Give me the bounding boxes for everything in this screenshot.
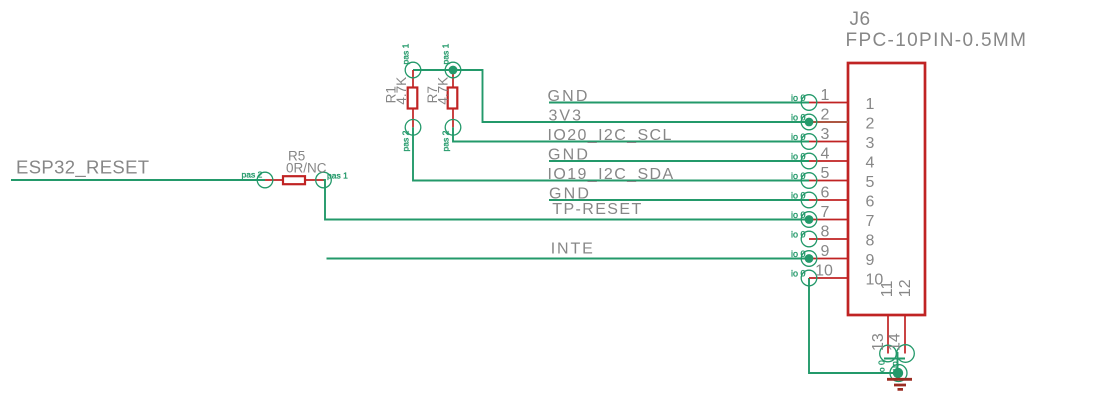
svg-text:INTE: INTE [551,240,595,257]
pin names inside (1-10) [866,96,884,289]
junction dot R7 top [449,66,458,75]
svg-text:pas 1: pas 1 [401,43,411,64]
svg-text:0R/NC: 0R/NC [286,161,327,176]
svg-text:6: 6 [821,185,830,202]
svg-text:pas 1: pas 1 [441,43,451,64]
svg-text:3: 3 [866,135,875,152]
junction dot pin7 [805,215,814,224]
svg-text:4: 4 [821,146,830,163]
svg-text:11: 11 [879,280,896,297]
wire vertical into ground junction [897,352,899,373]
pin circles R7 [445,62,461,135]
connector J6 pin 13 stub [887,315,889,354]
svg-text:9: 9 [821,243,830,260]
svg-text:3V3: 3V3 [549,107,583,124]
wire pins 13/14 tie to ground [884,358,905,360]
svg-text:io 0: io 0 [791,210,806,220]
supply pin circle at ground [890,365,907,382]
pin circles J6 pins 13/14 [880,345,915,363]
svg-text:GND: GND [549,185,591,202]
svg-text:4.7K: 4.7K [436,77,451,105]
svg-text:io 0: io 0 [791,113,806,123]
svg-text:IO20_I2C_SCL: IO20_I2C_SCL [548,127,673,144]
svg-text:io 0: io 0 [791,93,806,103]
svg-text:pas 2: pas 2 [242,170,263,180]
svg-text:9: 9 [866,252,875,269]
svg-text:8: 8 [866,232,875,249]
svg-text:io 0: io 0 [791,269,806,279]
connector J6 pin 14 stub [904,315,906,354]
svg-text:GND: GND [548,146,590,163]
wire GND to pin6 [549,199,809,201]
junction dot ground [893,368,903,378]
svg-text:5: 5 [866,174,875,191]
pin direction labels io 0 for pins 1-10 [791,93,806,279]
wire R5 to pin7 (TP-RESET net) [324,180,810,220]
svg-text:pas 1: pas 1 [327,170,348,180]
wire ESP32_RESET net [11,179,265,181]
svg-text:1: 1 [866,96,875,113]
svg-text:IO19_I2C_SDA: IO19_I2C_SDA [548,166,675,183]
resistor R1 stubs [412,70,414,127]
pin circles R5 [257,172,331,188]
resistor R1 body [408,88,418,109]
svg-text:1: 1 [821,87,830,104]
svg-text:3: 3 [821,126,830,143]
svg-text:4: 4 [866,154,875,171]
svg-text:13: 13 [870,333,887,351]
junction dot pin9 [805,254,814,263]
svg-text:io 0: io 0 [791,230,806,240]
svg-text:14: 14 [887,333,904,351]
svg-text:GND: GND [548,88,590,105]
pin circles R1 [405,62,421,135]
wire INTE to pin9 [327,258,810,260]
svg-text:TP-RESET: TP-RESET [552,201,642,218]
pin numbers outside (1-10) [815,87,833,280]
wire pin10 down to ground junction [809,278,898,373]
svg-text:7: 7 [866,213,875,230]
svg-text:io 0: io 0 [791,191,806,201]
svg-text:ESP32_RESET: ESP32_RESET [16,157,149,179]
svg-text:7: 7 [821,204,830,221]
svg-text:12: 12 [897,279,914,297]
svg-text:4.7K: 4.7K [394,77,409,105]
wire R1 top to R7 top to 3V3 corner to pin2 [413,70,809,122]
svg-text:FPC-10PIN-0.5MM: FPC-10PIN-0.5MM [846,30,1028,51]
svg-text:io 0: io 0 [791,249,806,259]
svg-text:8: 8 [821,224,830,241]
svg-text:sup: sup [890,361,900,375]
resistor R5 body [283,176,305,184]
svg-text:pas 2: pas 2 [401,130,411,151]
svg-text:2: 2 [821,107,830,124]
junction dot pin2 [805,118,814,127]
wire R7 bottom to pin3 (IO20_I2C_SCL) [453,127,809,141]
wire R1 bottom to pin5 (IO19_I2C_SDA) [413,127,809,180]
svg-text:io 0: io 0 [877,360,887,374]
connector J6 pin stubs 1-10 [809,103,848,279]
svg-text:5: 5 [821,165,830,182]
svg-text:io 0: io 0 [791,171,806,181]
ground symbol bars [887,379,912,389]
svg-text:io 0: io 0 [791,152,806,162]
wire GND to pin1 [549,102,809,104]
svg-text:6: 6 [866,193,875,210]
resistor R7 body [448,88,458,109]
svg-text:2: 2 [866,115,875,132]
svg-text:io 0: io 0 [791,132,806,142]
pin circles J6 pins 1-10 [801,95,817,286]
connector J6 box [848,63,925,315]
wire overlap on pin2 stub [809,121,848,123]
svg-text:10: 10 [815,263,833,280]
resistor R5 stubs [265,179,324,181]
svg-text:pas 2: pas 2 [441,130,451,151]
resistor R7 stubs [452,70,454,127]
svg-text:J6: J6 [850,9,871,30]
wire GND to pin4 [549,160,809,162]
